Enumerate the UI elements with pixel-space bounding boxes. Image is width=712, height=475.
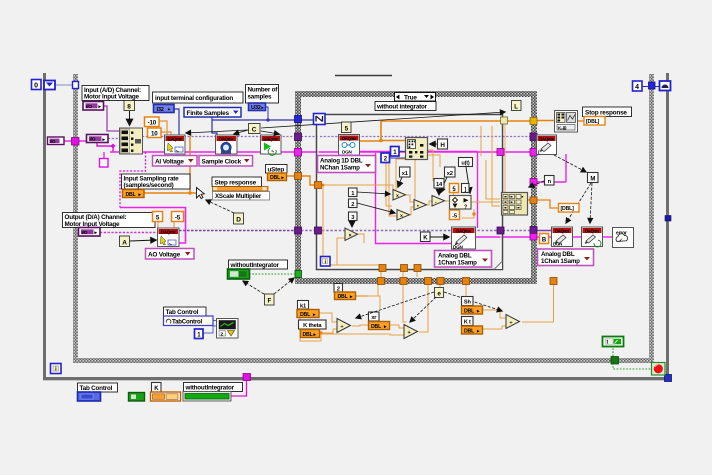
node Sh label [462, 297, 474, 306]
wire orange math network inside inner case [322, 126, 501, 265]
svg-text:Motor Input Voltage: Motor Input Voltage [84, 94, 140, 101]
node DBL uStep [268, 173, 287, 181]
svg-text:[DBL]: [DBL] [586, 119, 600, 125]
svg-text:Analog DBL: Analog DBL [541, 251, 575, 258]
svg-text:4: 4 [635, 84, 639, 91]
ref arrows 1 2 3 [357, 192, 390, 194]
inner case structure thin border [317, 115, 503, 270]
svg-text:×: × [349, 233, 352, 239]
node iteration i inner case [321, 257, 331, 267]
wire orange top loop in case [358, 121, 584, 194]
node 5 constant in case top [342, 122, 352, 133]
node DBL indicator stop response [584, 117, 605, 126]
node iteration i outer loop [51, 364, 62, 374]
node DAQmx clear right [582, 227, 603, 247]
node ring AI Voltage [153, 156, 198, 167]
svg-text:I/O: I/O [86, 104, 92, 110]
node e constant [435, 288, 444, 298]
ref arrows from C [186, 130, 248, 133]
svg-text:Sample Clock: Sample Clock [202, 159, 242, 166]
svg-text:?: ? [464, 205, 467, 211]
node 5 constant orange [153, 212, 163, 222]
node xr label [369, 312, 380, 321]
node DAQmx write right 1 [537, 135, 557, 155]
node cursor icon [197, 188, 205, 199]
node ring Analog DBL 1Chan 1Samp in case [435, 251, 492, 268]
triangle op left x [345, 228, 358, 241]
svg-text:✓: ✓ [619, 238, 623, 243]
node green boolean constant [228, 269, 250, 279]
node DAQmx create channel AI [165, 135, 186, 154]
svg-text:Number of: Number of [248, 87, 279, 94]
label Step response [212, 177, 262, 187]
svg-text:Analog 1D DBL: Analog 1D DBL [320, 157, 363, 164]
node index 1 [349, 188, 358, 197]
tunnels on inner case border [315, 117, 508, 272]
svg-text:TabControl: TabControl [172, 318, 203, 325]
node xr DBL [369, 322, 390, 330]
svg-text:÷: ÷ [341, 324, 344, 330]
svg-text:Step response: Step response [215, 179, 257, 186]
node H constant [438, 139, 448, 149]
node green partial bottom [129, 393, 145, 402]
svg-text:DGN: DGN [342, 150, 352, 155]
wire orange below case network [300, 271, 554, 341]
svg-text:uStep: uStep [268, 166, 285, 173]
ref arrows right side [554, 155, 586, 172]
tunnels on big case right border [530, 118, 537, 241]
node error out cloud [613, 228, 634, 248]
node 5 orange in case [450, 184, 459, 193]
svg-text:÷: ÷ [510, 320, 513, 326]
svg-text:I/O: I/O [90, 137, 96, 143]
triangle op bottom right [506, 315, 520, 329]
label Input A/D Channel [82, 86, 149, 101]
svg-text:DBL: DBL [303, 332, 314, 338]
svg-text:D: D [236, 217, 241, 224]
triangle op T2 multiply [397, 210, 410, 221]
svg-text:DAQmx: DAQmx [539, 136, 554, 141]
svg-text:DGN: DGN [453, 245, 463, 250]
big case structure ribbed border [295, 91, 537, 284]
node I/O constant far-left [48, 137, 65, 145]
svg-text:DBL: DBL [464, 328, 475, 334]
svg-text:+: + [408, 330, 411, 336]
svg-text:14: 14 [436, 182, 443, 188]
triangle op bottom left [337, 319, 351, 333]
node frame selector combo top-left [44, 81, 55, 90]
wire green boolean dotted [249, 274, 652, 369]
svg-text:F: F [267, 298, 271, 305]
node ring Analog 1D DBL NChan 1Samp [318, 156, 376, 173]
tunnels on big case left border [295, 116, 302, 278]
node K t DBL [462, 326, 483, 334]
svg-text:DAQmx: DAQmx [219, 136, 234, 141]
wire blue tabcontrol [203, 321, 217, 334]
node cluster unbundle icon [406, 138, 428, 160]
node tab control terminal bottom [78, 392, 101, 401]
svg-text:C: C [252, 127, 257, 134]
ref arrow A to DAQmx [130, 240, 156, 241]
label withoutIntegrator mid [229, 260, 288, 269]
svg-text:DAQmx: DAQmx [456, 228, 471, 233]
svg-text:DGN: DGN [553, 242, 562, 247]
label Stop response right [583, 107, 632, 117]
node DAQmx start [261, 135, 282, 155]
svg-text:DAQmx: DAQmx [161, 229, 176, 234]
node select icon [450, 196, 472, 211]
ref arrows F [243, 281, 264, 294]
node DAQmx write right 2 [552, 227, 573, 247]
node K t label [462, 317, 474, 326]
node I/O constant 2 [87, 135, 109, 143]
node K_theta label [299, 320, 327, 329]
svg-text:DAQmx: DAQmx [168, 136, 183, 141]
svg-text:DBL: DBL [270, 175, 281, 181]
ref arrow D to cursor [206, 200, 234, 213]
node xscale slider bar [213, 187, 269, 192]
node N array icon [314, 114, 326, 125]
node -10 constant [145, 117, 160, 127]
node tab VI icon [217, 319, 239, 339]
svg-text:H: H [440, 142, 445, 149]
label Tab Control bottom [78, 383, 118, 392]
svg-text:k1: k1 [300, 303, 307, 309]
node DBL sampling rate [123, 190, 145, 198]
node C constant [249, 124, 261, 134]
svg-text:-10: -10 [148, 120, 157, 127]
svg-text:K₂⊞: K₂⊞ [558, 125, 567, 130]
outer structure border gray [43, 73, 669, 381]
node XScale Multiplier [213, 192, 270, 201]
node TF stop indicator [603, 337, 624, 347]
node case selector True [395, 93, 436, 102]
svg-text:K t: K t [464, 320, 471, 326]
svg-text:Finite Samples: Finite Samples [187, 110, 230, 117]
node ring Sample Clock [199, 156, 253, 167]
svg-text:2: 2 [351, 202, 354, 208]
svg-text:(samples/second): (samples/second) [124, 182, 174, 189]
svg-text:u(t): u(t) [461, 161, 470, 167]
node U32 constant [249, 103, 266, 111]
svg-text:AO Voltage: AO Voltage [148, 252, 181, 259]
svg-text:Analog DBL: Analog DBL [438, 252, 472, 259]
node 2 constant below case [334, 284, 343, 293]
label Input Sampling rate [122, 174, 191, 189]
svg-text:DBL: DBL [371, 324, 382, 330]
node DAQmx timing [216, 135, 238, 154]
svg-text:DAQmx: DAQmx [585, 228, 600, 233]
svg-text:8: 8 [127, 104, 131, 111]
svg-text:DBL: DBL [464, 308, 475, 314]
label Tab Control mid [164, 307, 207, 316]
svg-text:DBL: DBL [338, 294, 349, 300]
wire purple task output row [100, 231, 552, 233]
svg-text:×: × [396, 193, 399, 199]
node x1 label box [400, 167, 411, 177]
node cluster orange bottom [151, 392, 181, 401]
svg-text:0: 0 [34, 83, 38, 90]
node B constant orange [540, 234, 549, 244]
svg-text:10: 10 [151, 131, 158, 138]
svg-text:I32: I32 [157, 107, 164, 113]
svg-text:Sh: Sh [464, 300, 472, 306]
node frame 0 constant top-left [32, 80, 42, 90]
label withoutIntegrator bottom [184, 383, 243, 392]
node index 3 [349, 212, 358, 221]
svg-text:×: × [400, 213, 403, 219]
node K constant [421, 232, 431, 242]
node 10 constant [148, 128, 162, 138]
wire blue left area [54, 85, 315, 135]
node numeric 8 constant [124, 101, 135, 111]
arrow from 8 down [129, 111, 131, 125]
svg-text:Stop response: Stop response [585, 109, 627, 116]
node 1 blue constant tab [195, 329, 204, 339]
node K_theta DBL [301, 330, 320, 338]
tunnels on big case bottom border [378, 278, 558, 285]
triangle op T3 add [414, 200, 427, 211]
node I/O constant 1 [83, 102, 104, 111]
node I32 enum constant [154, 105, 175, 113]
node DBL below 2 [335, 292, 356, 300]
node ring AO Voltage [146, 249, 195, 260]
svg-text:DAQmx: DAQmx [555, 228, 570, 233]
svg-text:L: L [514, 105, 518, 111]
svg-text:[DBL]: [DBL] [561, 206, 575, 212]
triangle op bottom mid [404, 325, 418, 339]
wire orange from array icon to right tunnels [528, 200, 558, 208]
svg-text:Tab Control: Tab Control [80, 385, 113, 392]
node DBL indicator mid right [559, 204, 580, 213]
node TabControl refnum [164, 316, 214, 326]
wire orange left area [144, 121, 315, 228]
svg-text:AI Voltage: AI Voltage [155, 159, 184, 166]
node n constant [545, 176, 555, 186]
wire purple task line input row [108, 137, 540, 139]
node x2 label box [445, 167, 456, 177]
node I/O constant output [79, 228, 101, 237]
ref arrows x1 x2 u(t) [398, 177, 402, 187]
node combo icon top-right [660, 81, 671, 91]
wire pink error line input row [64, 141, 540, 243]
node small magenta box [100, 159, 109, 168]
wire magenta bottom outside [230, 378, 247, 396]
node K constant bottom [152, 383, 162, 393]
node -5 constant orange [172, 212, 184, 222]
label Number of samples [246, 85, 279, 104]
node F constant [265, 294, 275, 305]
node ring Analog DBL right [538, 249, 594, 266]
node L constant [512, 101, 522, 111]
svg-text:samples: samples [248, 94, 273, 101]
svg-text:input terminal configuration: input terminal configuration [155, 95, 233, 102]
node 14 constant [434, 179, 444, 189]
node Sh DBL [462, 306, 483, 314]
wire blue stubs cluster [390, 152, 406, 159]
node 4 constant top-right [633, 81, 643, 91]
node 1 blue constant [391, 147, 400, 157]
svg-text:M: M [590, 177, 595, 183]
label Output D/A Channel [63, 213, 156, 228]
node DAQmx read [339, 135, 360, 156]
triangle op T4 subtract [432, 196, 445, 207]
triangle op T1 multiply [393, 190, 406, 201]
wire purple from IO1 down [103, 106, 119, 131]
svg-text:x1: x1 [402, 171, 409, 177]
svg-text:DBL: DBL [300, 312, 311, 318]
node M constant [588, 173, 599, 183]
svg-text:1Chan 1Samp: 1Chan 1Samp [541, 258, 580, 265]
while loop ribbed border [73, 74, 654, 363]
svg-text:DAQmx: DAQmx [342, 136, 357, 141]
node A constant [120, 236, 130, 247]
wire magenta error loop inside case [358, 152, 478, 244]
node u(t) label box [459, 158, 473, 167]
svg-text:I/O: I/O [82, 230, 88, 236]
label uStep [266, 165, 288, 174]
node k1 DBL [297, 310, 319, 318]
svg-text:Tab Control: Tab Control [166, 309, 199, 316]
label input terminal configuration [153, 92, 244, 103]
svg-text:-5: -5 [175, 215, 181, 222]
svg-text:DAQmx: DAQmx [264, 136, 279, 141]
svg-text:K theta: K theta [303, 323, 322, 329]
tunnels on outer structure border [243, 216, 672, 382]
top black line segment [335, 75, 392, 77]
ref arrow H to cluster [430, 143, 437, 145]
svg-text:U32: U32 [251, 105, 261, 111]
svg-text:XScale Multiplier: XScale Multiplier [215, 193, 262, 200]
svg-text:DBL: DBL [126, 192, 137, 198]
svg-text:I/O: I/O [50, 139, 56, 144]
svg-text:x2: x2 [447, 171, 453, 177]
node 2 blue constant [381, 153, 390, 163]
svg-text:without integrator: without integrator [376, 104, 428, 111]
node k1 label [298, 301, 309, 310]
node bracket constant [462, 184, 470, 193]
node build xy graph icon [555, 111, 578, 133]
node channel merge icon [120, 128, 143, 154]
svg-text:A: A [122, 240, 127, 247]
node D constant [234, 213, 244, 224]
svg-text:NChan 1Samp: NChan 1Samp [320, 165, 360, 172]
node index 2 [349, 199, 358, 208]
node green slide bottom [183, 392, 231, 402]
ref arrows from e [356, 292, 434, 318]
svg-text:withoutIntegrator: withoutIntegrator [185, 385, 235, 392]
svg-text:1Chan 1Samp: 1Chan 1Samp [438, 260, 477, 267]
node ring Finite Samples [184, 108, 241, 118]
wire magenta right bottom segments [476, 154, 613, 237]
node DAQmx create channel AO [158, 228, 180, 247]
wire blue top-right links [642, 86, 660, 88]
svg-text:withoutIntegrator: withoutIntegrator [230, 262, 280, 269]
svg-text:True: True [404, 94, 417, 101]
node stop button [652, 363, 666, 376]
node 6 orange in case [450, 210, 460, 220]
node DAQmx write in case [452, 227, 476, 250]
tunnels on while loop border [72, 82, 656, 365]
node array to cluster grid icon [502, 193, 528, 216]
label without integrator [375, 102, 436, 111]
